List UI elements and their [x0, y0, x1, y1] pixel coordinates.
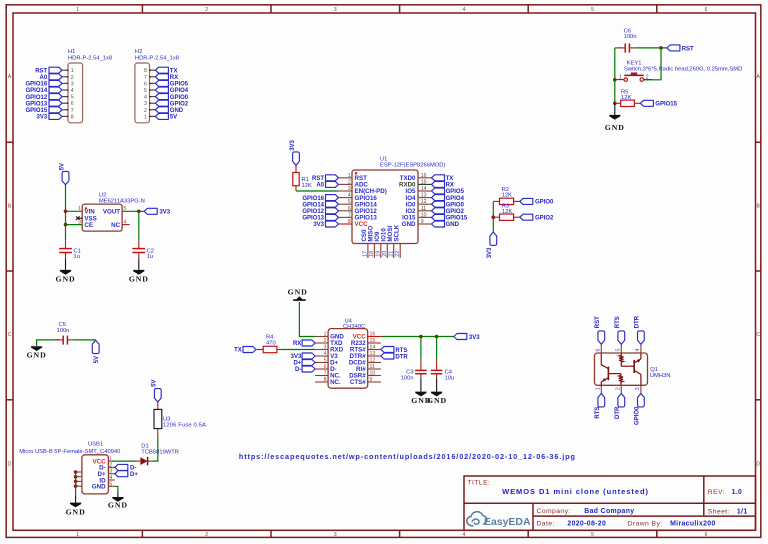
H1 pin endpoint dots — [67, 69, 69, 117]
svg-text:GPIO15: GPIO15 — [446, 216, 468, 222]
chip U4 labels — [343, 319, 365, 331]
H2 pin 5 — [144, 88, 155, 94]
net flag RST — [667, 45, 694, 52]
svg-text:GND: GND — [402, 221, 416, 228]
svg-text:1u: 1u — [74, 254, 80, 260]
U1 pin 18 MISO — [368, 226, 376, 258]
svg-text:3: 3 — [109, 469, 112, 475]
H1 pin 8 — [62, 114, 74, 120]
frame row ticks left — [6, 142, 13, 400]
svg-text:GPIO0: GPIO0 — [535, 200, 554, 206]
svg-text:GND: GND — [55, 274, 75, 283]
svg-text:1u: 1u — [147, 254, 153, 260]
H2 pin 7 — [144, 75, 155, 81]
svg-text:TX: TX — [446, 176, 454, 182]
wire U3 to D1 — [151, 437, 157, 461]
resistor R3 — [493, 214, 520, 220]
svg-text:16: 16 — [370, 332, 376, 338]
net flag RTS at U4.14 — [381, 347, 408, 354]
svg-text:GND: GND — [129, 274, 149, 283]
svg-text:A0: A0 — [316, 183, 324, 189]
USB1 shield pin 8 — [74, 480, 82, 484]
junction R5 node — [613, 102, 617, 106]
svg-text:8: 8 — [348, 219, 351, 225]
net flag TX at H2.8 — [155, 67, 177, 74]
svg-text:TX: TX — [170, 68, 178, 74]
U1 pin 20 IO10 — [381, 228, 389, 258]
svg-text:Company:: Company: — [537, 508, 571, 515]
U4 pin 12 DCD — [349, 358, 381, 367]
U1 pin 4 GPIO16 — [339, 193, 378, 202]
svg-text:2: 2 — [144, 108, 147, 114]
U4 pin 13 DTR — [350, 351, 381, 360]
svg-text:D+: D+ — [130, 472, 138, 478]
svg-text:11: 11 — [370, 364, 375, 370]
fuse U3 — [154, 402, 162, 437]
capacitor C2 labels — [147, 248, 154, 260]
net flag GPIO5 at U1.14 — [432, 188, 465, 195]
svg-text:GPIO4: GPIO4 — [446, 196, 465, 202]
svg-text:SCLK: SCLK — [393, 224, 400, 241]
wire USB GND pin to ground — [115, 486, 118, 492]
svg-text:13: 13 — [421, 193, 427, 199]
svg-text:1: 1 — [596, 387, 602, 390]
net flag 5V at H2.1 — [155, 113, 177, 120]
svg-text:4: 4 — [71, 88, 74, 94]
svg-text:7: 7 — [144, 75, 147, 81]
svg-text:12: 12 — [421, 199, 427, 205]
U1 pin 10 IO15 — [402, 212, 431, 221]
net flag RX at U4.2 — [293, 340, 315, 347]
U1 pin 16 TXD0 — [400, 173, 432, 182]
H1 pin 5 — [62, 95, 74, 101]
Q1 pin 5 top — [616, 344, 622, 353]
wire to VIN — [66, 210, 83, 212]
wire shield to ground — [75, 472, 77, 495]
svg-text:Miraculix200: Miraculix200 — [670, 521, 716, 528]
resistor R5 labels — [621, 89, 631, 101]
svg-text:15: 15 — [370, 338, 376, 344]
power flag 5V above U2 — [59, 163, 69, 185]
title block frame — [464, 476, 756, 530]
wire VOUT junction to C2 — [138, 211, 140, 240]
H2 pin 8 — [144, 68, 155, 74]
svg-text:1.0: 1.0 — [732, 489, 743, 496]
svg-text:6: 6 — [144, 81, 147, 87]
svg-text:1: 1 — [324, 332, 327, 338]
svg-text:4: 4 — [635, 349, 641, 352]
net flag GPIO0 at R2 — [520, 198, 554, 205]
wire C5 to 5V flag — [72, 339, 96, 341]
svg-text:H2: H2 — [135, 49, 142, 55]
svg-text:3V3: 3V3 — [469, 335, 480, 341]
svg-text:RTS: RTS — [615, 316, 621, 328]
svg-text:19: 19 — [376, 251, 382, 257]
svg-text:2: 2 — [205, 532, 208, 538]
svg-text:GPIO12: GPIO12 — [302, 209, 324, 215]
frame column numbers top — [76, 7, 707, 13]
svg-text:470: 470 — [266, 340, 276, 346]
net flag GPIO15 — [640, 100, 677, 107]
svg-text:12: 12 — [370, 358, 376, 364]
title block Date row — [537, 521, 716, 528]
U4 pin 16 VCC — [353, 332, 381, 341]
wire VOUT to 3V3 — [122, 210, 144, 212]
svg-text:GPIO16: GPIO16 — [26, 82, 48, 88]
net flag 3V3 at U4.4 — [291, 353, 315, 360]
svg-text:5V: 5V — [170, 115, 177, 121]
svg-text:16: 16 — [421, 173, 427, 179]
ground at USB1 GND — [108, 492, 128, 510]
net flag GPIO12 at H1.5 — [26, 94, 62, 101]
svg-text:6: 6 — [705, 532, 708, 538]
svg-text:Date:: Date: — [537, 521, 555, 528]
svg-text:5: 5 — [591, 532, 594, 538]
wire VCC to 3V3 — [381, 336, 454, 338]
svg-text:USB1: USB1 — [88, 442, 103, 448]
U1 pin 3 EN — [339, 186, 387, 195]
U1 pin 19 IO9 — [374, 231, 382, 258]
net flag GPIO16 at U1.4 — [302, 195, 338, 202]
svg-text:12K: 12K — [302, 183, 312, 189]
capacitor C4 labels — [445, 370, 455, 382]
svg-text:8: 8 — [324, 377, 327, 383]
svg-text:100n: 100n — [57, 328, 70, 334]
U4 pin 15 R232 — [351, 338, 381, 347]
net flag GPIO13 at U1.7 — [302, 214, 338, 221]
net flag GPIO2 at U1.11 — [432, 208, 465, 215]
svg-text:1: 1 — [109, 456, 112, 461]
U1 pin 14 IO5 — [406, 186, 432, 195]
svg-text:CTS#: CTS# — [350, 379, 366, 386]
svg-text:RX: RX — [446, 183, 454, 189]
junction R3 node — [492, 215, 496, 219]
svg-text:3V3: 3V3 — [313, 222, 324, 228]
net flag 3V3 at H1.8 — [37, 113, 62, 120]
svg-text:GPIO0: GPIO0 — [170, 95, 189, 101]
Q1 left transistor — [601, 353, 608, 385]
svg-text:RST: RST — [35, 68, 47, 74]
net flag GPIO5 at H2.6 — [155, 80, 188, 87]
svg-text:1206 Fuse 0.5A: 1206 Fuse 0.5A — [163, 423, 206, 429]
svg-text:GPIO4: GPIO4 — [170, 88, 189, 94]
svg-text:D: D — [8, 461, 12, 467]
U1 pin 13 IO4 — [406, 193, 432, 202]
svg-text:GND: GND — [605, 123, 625, 132]
svg-text:9: 9 — [370, 377, 373, 383]
net flag RTS at Q1.5 — [615, 316, 625, 344]
U1 pin 22 SCLK — [393, 224, 401, 258]
U4 pin 11 RI — [356, 364, 381, 373]
svg-text:3: 3 — [635, 387, 641, 390]
svg-text:20: 20 — [382, 251, 388, 257]
svg-text:HDR-P-2.54_1x8: HDR-P-2.54_1x8 — [68, 55, 112, 61]
svg-text:6: 6 — [705, 7, 708, 13]
title block Company row — [537, 508, 635, 515]
svg-text:5: 5 — [591, 7, 594, 13]
svg-text:3: 3 — [348, 186, 351, 192]
regulator U2 — [82, 204, 122, 231]
svg-text:D+: D+ — [293, 361, 301, 367]
net flag TX at R4 — [234, 347, 256, 354]
svg-text:GND: GND — [446, 222, 460, 228]
svg-text:D: D — [756, 461, 760, 467]
net flag DTR at Q1.2 — [615, 394, 625, 419]
USB1 shield pin 6 — [74, 470, 82, 474]
svg-text:5V: 5V — [152, 380, 158, 387]
U4 pin 10 DSR — [349, 371, 381, 380]
wire right vertical RST junction to KEY1 pin2 — [644, 48, 662, 80]
svg-text:7: 7 — [71, 108, 74, 114]
net flag RST at U1.1 — [312, 175, 339, 182]
svg-text:GND: GND — [170, 108, 184, 114]
svg-text:3: 3 — [334, 7, 337, 13]
svg-text:EasyEDA: EasyEDA — [484, 517, 531, 528]
svg-text:A0: A0 — [40, 75, 48, 81]
power flag 3V3 above R1 — [290, 139, 300, 165]
U1 pin 21 MOSI — [387, 226, 395, 258]
svg-text:1: 1 — [71, 68, 74, 74]
U2 pin NC 4 — [111, 219, 130, 229]
net flag GND at U1.9 — [432, 221, 460, 228]
net flag GPIO4 at H2.5 — [155, 87, 188, 94]
svg-text:3V3: 3V3 — [159, 210, 170, 216]
svg-text:NC: NC — [111, 222, 120, 229]
svg-text:GPIO5: GPIO5 — [446, 189, 465, 195]
H2 pin 1 — [144, 114, 155, 120]
svg-text:14: 14 — [421, 186, 427, 192]
svg-text:4: 4 — [109, 475, 112, 481]
svg-text:GPIO5: GPIO5 — [170, 82, 189, 88]
net flag A0 at H1.2 — [40, 74, 62, 81]
power flag 3V3 below R2 R3 — [487, 232, 497, 258]
net flag GPIO12 at U1.6 — [302, 208, 338, 215]
power flag 5V above U3 — [152, 380, 162, 402]
svg-text:6: 6 — [596, 349, 602, 352]
wire GND to C5 — [37, 340, 60, 346]
USB1 pin 4 ID — [99, 475, 114, 484]
USB1 pin 2 D- — [99, 462, 115, 471]
capacitor C6 labels — [624, 28, 637, 40]
frame row letters right — [756, 74, 760, 467]
svg-text:3: 3 — [334, 532, 337, 538]
net flag A0 at U1.2 — [316, 181, 338, 188]
svg-text:14: 14 — [370, 345, 376, 351]
net flag DTR at Q1.4 — [635, 315, 645, 344]
svg-text:6: 6 — [71, 101, 74, 107]
svg-text:D-: D- — [295, 367, 301, 373]
net flag TX at U1.16 — [432, 175, 454, 182]
svg-text:DTR: DTR — [615, 406, 621, 419]
net flag RST at H1.1 — [35, 67, 62, 74]
svg-text:11: 11 — [421, 206, 426, 212]
U4 pin 9 CTS — [350, 377, 381, 386]
H2 pin endpoint dots — [149, 69, 151, 117]
net flag D- at U4.6 — [295, 366, 315, 373]
junction KEY1 pin1 — [613, 78, 617, 82]
svg-text:GND: GND — [27, 351, 47, 360]
U1 pin 1 RST — [339, 173, 368, 182]
svg-text:1: 1 — [619, 74, 622, 80]
svg-text:GPIO13: GPIO13 — [26, 101, 48, 107]
frame column ticks bottom — [142, 530, 656, 537]
svg-text:C: C — [756, 332, 760, 338]
USB1 pin 1 VCC — [93, 456, 113, 466]
svg-text:6: 6 — [324, 364, 327, 370]
resistor R4 labels — [266, 335, 276, 347]
svg-text:GPIO0: GPIO0 — [635, 406, 641, 425]
frame column numbers bottom — [76, 532, 707, 538]
Q1 left base resistor — [608, 374, 623, 386]
capacitor C3 labels — [401, 370, 414, 382]
resistor R2 — [493, 198, 520, 204]
svg-text:Sheet:: Sheet: — [708, 509, 730, 516]
svg-text:10: 10 — [421, 212, 427, 218]
H2 pin 6 — [144, 81, 155, 87]
svg-text:2020-08-20: 2020-08-20 — [567, 521, 606, 528]
svg-text:8: 8 — [71, 114, 74, 120]
svg-text:7: 7 — [324, 371, 327, 377]
svg-text:UMH3N: UMH3N — [650, 373, 671, 379]
svg-text:3V3: 3V3 — [290, 139, 296, 150]
resistor R2 labels — [502, 187, 512, 199]
H1 pin 3 — [62, 81, 74, 87]
svg-text:5V: 5V — [94, 356, 100, 363]
svg-text:5: 5 — [616, 349, 622, 352]
net flag DTR at U4.13 — [381, 353, 408, 360]
ground below C4 — [427, 378, 447, 405]
resistor R5 — [615, 100, 641, 106]
net flag GPIO13 at H1.6 — [26, 100, 62, 107]
net flag GPIO4 at U1.13 — [432, 195, 465, 202]
connector H1 — [68, 49, 112, 123]
diode D1 — [137, 457, 152, 465]
svg-text:GPIO14: GPIO14 — [302, 202, 324, 208]
svg-text:GPIO2: GPIO2 — [446, 209, 465, 215]
net flag 3V3 at U4 VCC — [454, 334, 480, 341]
USB1 pin 5 GND — [92, 481, 115, 490]
U1 pin 5 GPIO14 — [339, 199, 378, 208]
junction CE — [64, 223, 68, 227]
ground left of C5 — [27, 346, 47, 360]
U1 pin 12 IO0 — [406, 199, 432, 208]
Q1 pin 4 top — [635, 344, 641, 353]
net flag GPIO0 at U1.12 — [432, 201, 465, 208]
net flag GPIO14 at H1.4 — [26, 87, 62, 94]
svg-text:VCC: VCC — [355, 221, 369, 228]
resistor R1 — [293, 165, 299, 191]
capacitor C4 — [431, 359, 443, 379]
svg-text:RST: RST — [312, 176, 324, 182]
net flag 3V3 at VOUT — [144, 208, 171, 215]
Q1 pin 1 bottom — [596, 385, 602, 393]
U4 pin 14 RTS — [350, 345, 381, 354]
svg-text:DTR: DTR — [635, 315, 641, 328]
resistor R4 — [256, 346, 282, 352]
transistor array Q1 box — [595, 353, 648, 385]
svg-text:H1: H1 — [68, 49, 75, 55]
U4 pin 4 V3 — [315, 351, 338, 360]
connector USB1 labels — [19, 442, 120, 455]
H1 pin 6 — [62, 101, 74, 107]
U1 pin 15 RXD0 — [399, 179, 432, 188]
H2 pin 2 — [144, 108, 155, 114]
Q1 pin 3 bottom — [635, 385, 641, 393]
svg-text:VOUT: VOUT — [103, 209, 120, 216]
wire C6 left — [615, 47, 622, 49]
svg-text:GPIO12: GPIO12 — [26, 95, 48, 101]
svg-text:D-: D- — [130, 466, 136, 472]
H1 pin 4 — [62, 88, 74, 94]
frame row letters left — [8, 74, 12, 467]
svg-text:21: 21 — [389, 251, 395, 257]
resistor R1 labels — [302, 177, 312, 189]
U1 pin 7 GPIO13 — [339, 212, 378, 221]
svg-text:2: 2 — [324, 338, 327, 344]
svg-text:TITLE:: TITLE: — [468, 479, 491, 486]
svg-text:1: 1 — [76, 532, 79, 538]
svg-text:3: 3 — [144, 101, 147, 107]
svg-text:100n: 100n — [624, 34, 637, 40]
junction C3 — [419, 335, 423, 339]
svg-text:GPIO15: GPIO15 — [26, 108, 48, 114]
net flag D+ at USB1.3 — [115, 471, 139, 478]
U4 pin 6 D- — [315, 364, 337, 373]
svg-text:4: 4 — [144, 95, 147, 101]
svg-text:RTS: RTS — [395, 348, 407, 354]
net flag RTS at Q1.1 — [595, 394, 605, 419]
junction VIN — [64, 210, 68, 214]
U2 pin VSS 2 no-connect — [76, 215, 97, 222]
svg-text:U2: U2 — [99, 192, 106, 198]
frame row ticks right — [756, 142, 761, 400]
EasyEDA logo — [467, 512, 531, 528]
svg-text:10: 10 — [370, 371, 376, 377]
svg-text:GPIO13: GPIO13 — [302, 216, 324, 222]
svg-text:3: 3 — [78, 219, 81, 225]
svg-text:GND: GND — [427, 396, 447, 405]
svg-text:5: 5 — [71, 95, 74, 101]
U2 pin CE 3 — [78, 219, 93, 229]
svg-text:2: 2 — [646, 74, 649, 80]
chip U1 ESP-12F — [352, 170, 418, 244]
svg-text:DTR: DTR — [395, 354, 408, 360]
svg-text:RST: RST — [595, 316, 601, 328]
svg-text:100n: 100n — [401, 376, 414, 382]
svg-text:1/1: 1/1 — [737, 509, 748, 516]
wire C6 right to RST — [635, 47, 667, 49]
U1 pin 6 GPIO12 — [339, 206, 378, 215]
svg-text:6: 6 — [348, 206, 351, 212]
svg-text:RTS: RTS — [595, 407, 601, 419]
svg-text:Switch,3*6*5,Radic head,260G,: Switch,3*6*5,Radic head,260G, 0.25mm,SMD — [624, 67, 742, 73]
USB1 pin 3 D+ — [98, 469, 115, 478]
U4 pin 8 NC — [315, 377, 341, 386]
net flag GPIO2 at R3 — [520, 214, 554, 221]
ground below R5 — [605, 103, 625, 132]
connector H2 — [135, 49, 179, 123]
svg-text:2: 2 — [616, 387, 622, 390]
svg-text:GND: GND — [108, 501, 128, 510]
wire KEY1 to R5 — [614, 80, 616, 104]
chip U4 CH340C — [328, 329, 368, 389]
svg-text:2: 2 — [205, 7, 208, 13]
svg-text:9: 9 — [421, 219, 424, 225]
svg-text:RX: RX — [170, 75, 178, 81]
svg-text:5V: 5V — [59, 163, 65, 170]
U4 pin 2 TXD — [315, 338, 343, 347]
H2 pin 4 — [144, 95, 155, 101]
